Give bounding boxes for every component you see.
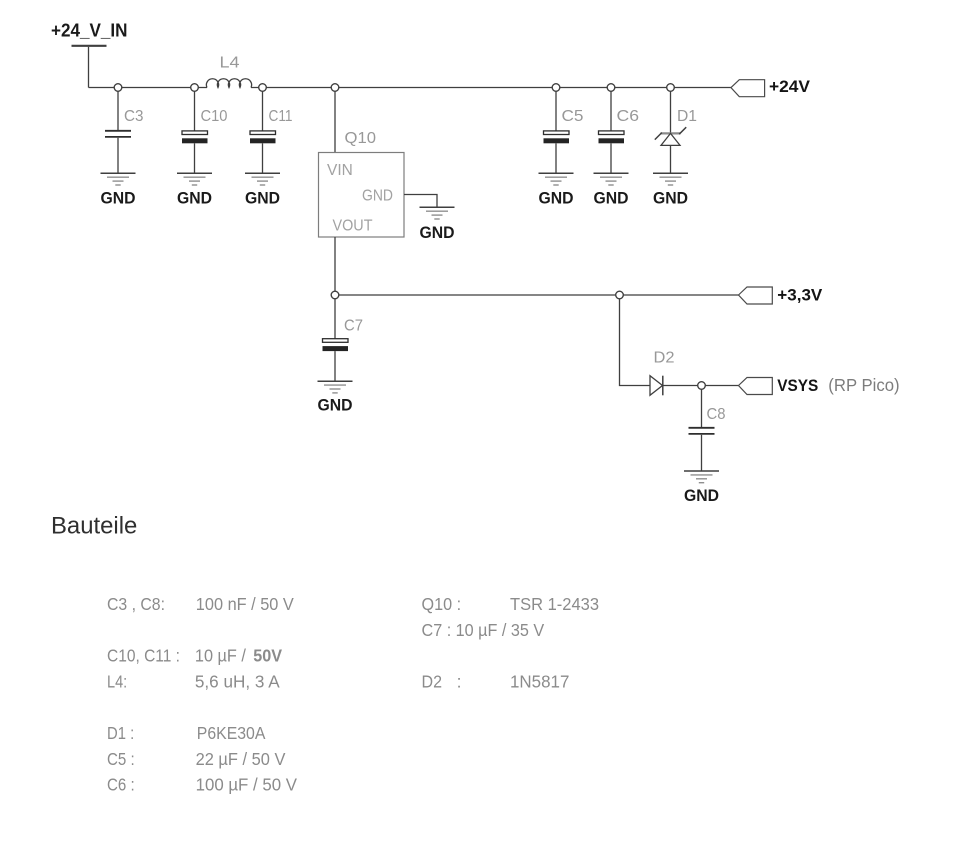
flag +3,3V (739, 286, 823, 305)
svg-text:+3,3V: +3,3V (777, 286, 823, 305)
diode D2 (650, 350, 675, 396)
wire from +24_V_IN down to rail (88, 47, 90, 88)
svg-text:D2: D2 (422, 671, 443, 691)
junction on +24V rail at D1 (667, 84, 675, 92)
svg-text:C10, C11 :: C10, C11 : (107, 646, 180, 666)
capacitor C10 (182, 91, 228, 173)
junction on +24V rail at C6 (607, 84, 615, 92)
svg-text:D1 :: D1 : (107, 723, 134, 743)
svg-text:VSYS: VSYS (777, 376, 818, 395)
wire VIN drop to Q10 (334, 91, 336, 153)
svg-text:C6: C6 (617, 108, 640, 125)
zener diode D1 (655, 91, 697, 173)
inductor L4 (206, 55, 251, 88)
capacitor C11 (250, 91, 293, 173)
parts list row C3,C8 (107, 594, 294, 614)
svg-text:C7: C7 (344, 318, 363, 335)
ground (D1) (653, 173, 688, 207)
svg-text:VIN: VIN (327, 162, 353, 179)
svg-text:VOUT: VOUT (333, 218, 373, 235)
junction on +24V rail at C5 (552, 84, 560, 92)
svg-text:100 nF / 50 V: 100 nF / 50 V (196, 594, 294, 614)
parts list row D2 (422, 671, 570, 691)
wire +3,3V rail (335, 294, 739, 296)
svg-text:+24_V_IN: +24_V_IN (51, 21, 128, 41)
svg-text:C7 : 10 µF / 35 V: C7 : 10 µF / 35 V (422, 620, 545, 640)
junction on +24V rail at C10 (191, 84, 199, 92)
svg-text:D1: D1 (677, 108, 697, 125)
ground (C8) (684, 471, 719, 505)
svg-text:C8: C8 (707, 406, 726, 423)
svg-text:5,6 uH, 3 A: 5,6 uH, 3 A (195, 671, 280, 691)
svg-text:GND: GND (101, 189, 136, 207)
svg-text:C11: C11 (269, 108, 293, 125)
wire Q10 VOUT drop (334, 237, 336, 295)
wire +24V rail left segment (89, 87, 208, 89)
svg-text:50V: 50V (253, 646, 282, 666)
svg-text:22 µF / 50 V: 22 µF / 50 V (196, 749, 286, 769)
junction on +3,3V rail at C7 (331, 291, 339, 299)
flag VSYS (739, 375, 900, 395)
ground (C6) (594, 173, 629, 207)
svg-text:C3 , C8:: C3 , C8: (107, 594, 165, 614)
capacitor C3 (105, 91, 144, 173)
wire +24V rail right segment (251, 87, 731, 89)
svg-text:GND: GND (362, 188, 393, 205)
junction on +24V rail at Q10 VIN (331, 84, 339, 92)
ground (Q10) (420, 207, 455, 242)
parts list row C10,C11 (107, 646, 282, 666)
ground (C11) (245, 173, 280, 207)
svg-text:D2: D2 (654, 350, 675, 367)
parts list row Q10 (422, 594, 600, 614)
svg-text:GND: GND (245, 189, 280, 207)
junction on +3,3V rail at D2 branch (616, 291, 624, 299)
capacitor C6 (599, 91, 640, 173)
svg-text::: : (457, 671, 462, 691)
parts list row C5 (107, 749, 286, 769)
ground (C10) (177, 173, 212, 207)
parts list row D1 (107, 723, 266, 743)
svg-text:GND: GND (594, 189, 629, 207)
ground (C5) (539, 173, 574, 207)
svg-text:C5 :: C5 : (107, 749, 135, 769)
svg-text:L4:: L4: (107, 671, 127, 691)
svg-text:L4: L4 (220, 55, 240, 72)
junction at C8 / VSYS (698, 382, 706, 390)
ground (C7) (318, 381, 353, 414)
svg-text:Bauteile: Bauteile (51, 513, 137, 540)
svg-text:P6KE30A: P6KE30A (197, 723, 266, 743)
wire Q10 GND pin (404, 195, 437, 208)
svg-text:Q10 :: Q10 : (422, 594, 462, 614)
parts list row C6 (107, 775, 297, 795)
ground (C3) (101, 173, 136, 207)
svg-text:10 µF /: 10 µF / (195, 646, 246, 666)
svg-text:(RP Pico): (RP Pico) (828, 375, 899, 395)
svg-text:+24V: +24V (769, 77, 811, 96)
svg-text:GND: GND (420, 224, 455, 242)
svg-text:1N5817: 1N5817 (510, 671, 569, 691)
svg-text:C5: C5 (562, 108, 584, 125)
svg-text:C6 :: C6 : (107, 775, 135, 795)
parts list row L4 (107, 671, 280, 691)
wire D2 cathode to VSYS flag (663, 385, 739, 387)
junction on +24V rail at C11 (259, 84, 267, 92)
capacitor C8 (689, 389, 726, 471)
junction on +24V rail at C3 (114, 84, 122, 92)
svg-text:GND: GND (653, 189, 688, 207)
wire D2 branch drop and lead (620, 299, 651, 386)
regulator Q10 (319, 130, 405, 237)
svg-text:Q10: Q10 (345, 130, 377, 147)
svg-text:GND: GND (318, 397, 353, 415)
svg-text:C10: C10 (201, 108, 228, 125)
svg-text:C3: C3 (124, 108, 144, 125)
svg-text:100 µF / 50 V: 100 µF / 50 V (196, 775, 298, 795)
flag +24V (731, 77, 811, 97)
capacitor C5 (544, 91, 584, 173)
power symbol +24_V_IN (51, 21, 128, 46)
svg-text:TSR 1-2433: TSR 1-2433 (510, 594, 599, 614)
svg-text:GND: GND (177, 189, 212, 207)
svg-text:GND: GND (684, 487, 719, 505)
capacitor C7 (323, 299, 364, 381)
svg-text:GND: GND (539, 189, 574, 207)
